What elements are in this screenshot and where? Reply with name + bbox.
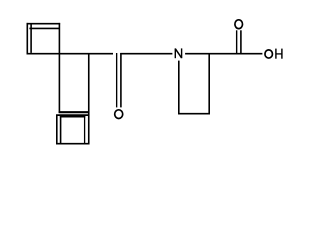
- ring C inner double-bond line (top): [60, 116, 85, 118]
- wire N to OH through ring D top and carboxyl C: [185, 53, 262, 55]
- ring C bottom edge: [56, 143, 89, 145]
- ring A bottom edge + chain wire to carbonyl C1: [27, 53, 113, 55]
- ring C top edge: [56, 114, 89, 116]
- ring C outer left edge: [56, 115, 58, 145]
- ring D bottom edge: [178, 113, 210, 115]
- carboxyl C=O double bond line right: [240, 30, 242, 54]
- ring A inner double-bond line (left): [30, 24, 32, 53]
- carboxyl C=O double bond line left: [236, 30, 238, 54]
- carbonyl C1=O double bond line left: [116, 53, 118, 107]
- ring D (azetidine) left edge: [178, 61, 180, 115]
- carbonyl C1=O double bond line right: [120, 53, 122, 107]
- ring A left edge: [26, 23, 28, 55]
- wire C1 to N: [120, 53, 172, 55]
- ring C inner double-bond line (left): [60, 116, 62, 144]
- atom label N (azetidine): [175, 48, 181, 58]
- atom label O (ketone): [115, 110, 123, 119]
- atom label OH (carboxyl hydroxyl): [265, 49, 282, 59]
- ring B bottom edge: [59, 111, 90, 113]
- atom label O (carboxyl, double bonded): [235, 20, 243, 29]
- ring A inner double-bond line (top): [29, 27, 60, 29]
- ring A top edge: [27, 23, 61, 25]
- ring D right edge: [208, 53, 210, 114]
- ring B right edge shared with ring C right edge: [88, 53, 90, 145]
- ring C inner double-bond line (right): [84, 116, 86, 144]
- ring A right edge shared with ring B left edge: [58, 23, 60, 113]
